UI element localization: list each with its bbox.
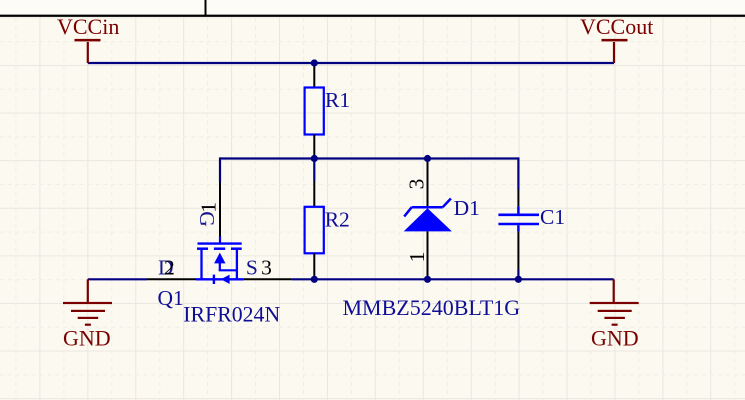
Q1 pin S lead: [244, 278, 292, 280]
wire ground rail right: [292, 278, 614, 280]
ground left bar 4: [85, 324, 91, 326]
diode D1: [343, 159, 521, 320]
R1 body: [305, 88, 324, 135]
junction gate net / R1-R2: [311, 155, 318, 162]
svg-text:1: 1: [197, 202, 221, 213]
resistor R1: [305, 63, 350, 159]
svg-text:R2: R2: [325, 208, 350, 232]
ground left bar 2: [71, 310, 105, 312]
svg-text:3: 3: [404, 179, 428, 190]
junction ground rail / D1: [424, 276, 431, 283]
wire ground rail left: [88, 278, 147, 280]
svg-text:MMBZ5240BLT1G: MMBZ5240BLT1G: [343, 295, 521, 320]
Q1 gate plate: [198, 242, 242, 244]
power port VCCin: [57, 14, 119, 63]
power port VCCout: [580, 14, 653, 63]
Q1 drain contact: [200, 249, 202, 280]
C1 plate bottom: [498, 223, 539, 226]
VCCout power bar: [602, 39, 628, 42]
D1 zener cathode bar: [412, 206, 443, 209]
Q1 pin D lead: [147, 278, 196, 280]
R2 pin 1: [313, 181, 315, 207]
svg-text:VCCout: VCCout: [580, 14, 653, 39]
svg-text:S: S: [246, 255, 258, 279]
wire gate net horizontal: [220, 157, 518, 159]
junction gate net / D1: [424, 155, 431, 162]
R1 pin 2: [313, 135, 315, 159]
ground right bar 1: [590, 302, 639, 304]
D1 zener wing right: [443, 199, 451, 208]
wire gate drop to Q1: [219, 157, 221, 182]
C1 pin 2 lead: [517, 232, 519, 270]
Q1 channel segment right: [231, 247, 242, 250]
ground right bar 3: [604, 317, 625, 319]
D1 zener wing left: [404, 207, 412, 216]
Q1 gate lead stub: [219, 237, 221, 244]
transistor Q1: [147, 183, 292, 327]
C1 top stub: [517, 206, 520, 213]
R2 pin 2: [313, 253, 315, 279]
svg-text:GND: GND: [591, 325, 639, 350]
ground left: [63, 279, 112, 350]
ground right bar 4: [612, 324, 618, 326]
C1 bottom stub: [517, 225, 520, 231]
svg-text:1: 1: [405, 252, 429, 263]
svg-text:GND: GND: [63, 325, 111, 350]
svg-text:D1: D1: [454, 196, 480, 220]
svg-text:R1: R1: [325, 88, 350, 112]
D1 pin 1 lead: [427, 231, 429, 279]
Q1 source contact: [236, 249, 238, 280]
wire VCCin rail top: [88, 62, 614, 64]
D1 anode triangle: [404, 208, 452, 231]
Q1 pin G lead: [219, 183, 221, 237]
capacitor C1: [498, 190, 565, 270]
svg-text:2: 2: [164, 255, 175, 279]
VCCin stem: [87, 42, 89, 63]
R1 pin 1: [313, 63, 315, 88]
Q1 body stub: [219, 262, 221, 270]
R2 body: [305, 207, 324, 254]
Q1 channel segment middle: [214, 247, 225, 250]
ground left stem: [87, 279, 89, 302]
junction ground rail / R2: [311, 276, 318, 283]
ground left bar 1: [63, 302, 112, 304]
wire R1 to R2 link: [313, 159, 315, 182]
wire C1 branch upper: [517, 157, 519, 190]
svg-text:IRFR024N: IRFR024N: [183, 303, 280, 327]
D1 pin 3 lead: [427, 159, 429, 207]
ground right: [590, 279, 639, 350]
VCCout stem: [613, 42, 615, 63]
ground right stem: [613, 279, 615, 302]
resistor R2: [305, 181, 350, 279]
Q1 baseline segment: [196, 278, 244, 280]
wire C1 branch lower: [517, 270, 519, 279]
ground left bar 3: [78, 317, 99, 319]
C1 pin 1 lead: [517, 190, 519, 206]
junction VCCin rail / R1: [311, 59, 318, 66]
VCCin power bar: [75, 39, 101, 42]
Q1 body-source tie: [219, 269, 237, 271]
svg-text:VCCin: VCCin: [57, 14, 119, 39]
ground right bar 2: [598, 310, 632, 312]
Q1 body arrow: [214, 253, 225, 264]
Q1 body diode cathode bar: [213, 275, 215, 284]
junction ground rail / C1: [515, 276, 522, 283]
C1 plate top: [498, 214, 539, 217]
svg-text:3: 3: [261, 256, 272, 280]
Q1 body diode triangle: [221, 275, 230, 284]
svg-text:Q1: Q1: [158, 286, 184, 310]
svg-text:C1: C1: [540, 205, 565, 229]
Q1 channel segment left: [197, 247, 208, 250]
